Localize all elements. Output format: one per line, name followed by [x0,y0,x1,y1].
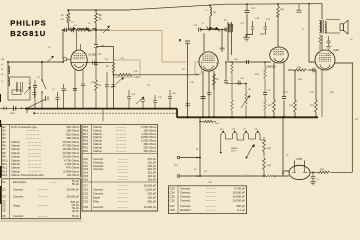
capacitor C14b [141,100,145,109]
svg-text:410 pF: 410 pF [147,167,156,171]
wire heater drop [199,117,201,176]
svg-text:C1: C1 [2,180,6,184]
resistor R9 cathode [213,74,216,117]
tube V2 electrodes [203,55,215,63]
junction dots mains [263,172,284,177]
svg-text:Carbon: Carbon [93,125,102,129]
mains plug pins [4,106,7,110]
svg-text:C23: C23 [83,205,89,209]
capacitor C16 [168,90,172,109]
aerial labels [1,64,4,76]
svg-text:10,000 pF: 10,000 pF [144,205,157,209]
junction dots IF2 [201,3,310,30]
chassis bus left (thick) [26,108,177,110]
resistor R19 [294,100,297,112]
capacitor row C3b [56,92,60,109]
svg-text:R13: R13 [2,169,8,173]
wire coupling row [288,69,313,71]
middle table rows R15-R22 [83,125,157,153]
capacitor C18b HT [297,4,302,12]
selector tap dots [220,131,259,154]
svg-text:— — — —: — — — — [26,137,40,140]
capacitor C12a [112,85,116,87]
svg-text:W.W. Cemented type: W.W. Cemented type [11,125,37,129]
svg-text:22k: 22k [147,85,150,87]
mains terminal upper [177,156,180,159]
resistor R6 horizontal osc [114,74,132,77]
svg-text:R10: R10 [2,158,8,162]
volume potentiometer R13a [245,84,248,118]
tube V1 grid pad [63,58,66,61]
wire UF89 grid feed [132,74,200,76]
svg-text:10,000 pF: 10,000 pF [233,195,246,199]
output transformer T1 primary [320,21,321,33]
dropper resistor R23 [263,158,266,176]
svg-text:— — — —: — — — — [28,159,42,162]
svg-text:— — — —: — — — — [28,156,42,159]
svg-text:C2: C2 [2,188,6,192]
svg-text:Carbon: Carbon [11,147,20,151]
capacitor C2b box side [33,88,37,98]
svg-text:C11: C11 [83,160,88,164]
aerial coil L2 [8,78,10,86]
svg-text:UABC80: UABC80 [266,66,276,69]
capacitor C17a [236,81,242,86]
HT dropper capacitor C21 [245,11,250,13]
svg-text:Carbon: Carbon [11,144,20,148]
tube V4 electrodes [319,54,331,62]
wire top bus HT [130,4,322,10]
svg-text:PHILIPS: PHILIPS [10,18,47,27]
oscillator can outline [114,60,141,77]
svg-text:110 pF: 110 pF [148,177,157,181]
wire AF grid resistor [294,70,296,117]
svg-text:820 Ohms: 820 Ohms [66,132,79,136]
svg-text:30 pF: 30 pF [72,209,79,213]
svg-text:6,800 Ohms: 6,800 Ohms [141,135,157,139]
svg-text:Electrolytic: Electrolytic [13,180,27,184]
resistor R5 (screen feed) [95,13,98,23]
IF2 transformer windings [228,24,229,32]
resistor R11 AVC [264,62,267,92]
wire oscillator row [63,29,110,31]
wire osc to triode grid [62,30,64,59]
resistor R16 anode load [277,7,280,18]
wire HT dropper [246,4,248,37]
trimmer C14 [136,97,144,104]
svg-text:— — —: — — — [38,189,48,192]
capacitor C6a osc [65,28,67,32]
mains switch S2 [14,106,16,111]
tube V5 electrodes [295,166,305,172]
svg-text:R15: R15 [83,125,89,129]
wire IF1 choke [209,5,211,26]
wire HT right riser [351,63,353,172]
svg-text:10,000 Ohms: 10,000 Ohms [62,155,79,159]
svg-text:Carbon: Carbon [11,166,20,170]
svg-text:600 Ohms: 600 Ohms [66,125,79,129]
svg-text:C20: C20 [83,192,89,196]
tube V3 UABC80 envelope [270,47,289,63]
chassis bus step (thick) [176,109,178,118]
svg-text:R14: R14 [2,173,8,177]
trimmer C7 arrow [103,26,110,33]
trimmer C4 top [47,56,54,62]
ground reservoir [310,182,316,185]
wire to output transformer [321,4,323,20]
svg-text:UF89: UF89 [219,48,226,51]
svg-text:R2: R2 [2,129,6,133]
resistor R12 [264,95,267,118]
wire screen drop [96,30,114,109]
middle table rows C17-C21 [83,184,156,210]
switch contacts mains [46,96,49,101]
resistor R4 cathode [95,62,98,109]
svg-text:Moulded: Moulded [180,208,191,212]
tube V5 UY85 envelope [289,165,310,179]
osc core arrow [116,78,124,85]
tube V1 UCH81 envelope [71,50,87,70]
resistor R2 (top left) [67,13,70,23]
svg-text:C26: C26 [170,199,176,203]
svg-text:— — — —: — — — — [28,170,42,173]
svg-text:250 Ohms: 250 Ohms [66,136,79,140]
svg-text:1M Ohms: 1M Ohms [67,173,80,177]
wire IF1 row [200,29,226,31]
svg-text:470 pF: 470 pF [147,157,156,161]
bottom edge shading [0,220,82,223]
capacitor C19 cathode [201,97,206,99]
svg-text:— — —: — — — [206,200,216,203]
oscillator coil L6 core arrows [86,27,91,32]
wire UL84 right to HT riser [335,62,353,64]
svg-text:Carbon: Carbon [11,140,20,144]
resistor R21 barretter [200,120,216,122]
svg-text:— — —: — — — [38,215,48,218]
wire UABC80 aux [283,63,285,118]
stray mark [179,39,181,41]
svg-text:47,000 Ohms: 47,000 Ohms [62,144,79,148]
svg-text:Ceramic: Ceramic [180,195,191,199]
wire aerial horizontal [8,61,63,63]
svg-text:— — — —: — — — — [26,133,40,136]
svg-text:15,000 Ohms: 15,000 Ohms [62,140,79,144]
tube V3 electrodes [274,50,285,55]
capacitor C25 [282,97,286,99]
extra junction dots [95,29,314,84]
svg-text:1,000 pF: 1,000 pF [145,188,156,192]
svg-text:C25: C25 [170,195,176,199]
svg-text:Gang: Gang [13,204,20,208]
svg-text:15,000 Ohms: 15,000 Ohms [62,147,79,151]
svg-text:— — —: — — — [118,185,128,188]
capacitor C23 det2 [260,22,267,34]
middle table border (R14-R22, C10-C21) [82,124,158,211]
svg-text:— — —: — — — [38,196,48,199]
svg-text:390 Ohms: 390 Ohms [143,142,156,146]
capacitor C2 aerial [33,86,37,88]
svg-text:C16: C16 [83,177,89,181]
junction dots lamps [196,157,201,177]
wire screen feed UL84 [309,4,315,62]
svg-text:Carbon: Carbon [11,155,20,159]
capacitor C5 (screen decouple) [94,45,98,48]
resistor table border (R1-R13) [2,124,81,177]
svg-text:R18: R18 [83,135,89,139]
svg-text:Ceramic: Ceramic [13,214,24,218]
svg-text:1M: 1M [248,89,251,91]
table link stub [102,109,104,121]
wire IF2 verticals [228,22,232,62]
svg-text:Ceramic: Ceramic [93,164,104,168]
resistor R10 det load [231,62,234,84]
resistor R25 tone [319,34,322,50]
svg-text:— — —: — — — [206,192,216,195]
svg-text:Carbon: Carbon [11,158,20,162]
voltage selector contacts [221,132,264,152]
svg-text:— — —: — — — [118,206,128,209]
svg-text:Ceramic: Ceramic [93,188,104,192]
svg-text:50 pF: 50 pF [72,214,79,218]
svg-text:Ceramic: Ceramic [180,204,191,208]
svg-text:C13: C13 [83,167,89,171]
svg-text:Carbon: Carbon [11,162,20,166]
resistor R20 cathode UL84 [315,100,318,112]
HT choke L7 [210,7,211,16]
svg-text:C9: C9 [2,214,6,218]
svg-text:10,000 pF: 10,000 pF [144,184,157,188]
right table border (C23-C28) [169,186,247,214]
chassis shield outline (faint) [107,31,186,63]
svg-text:Ceramic: Ceramic [13,188,24,192]
svg-text:C21: C21 [83,196,89,200]
svg-text:C14: C14 [83,171,89,175]
ground tone [326,47,331,50]
loudspeaker LS [340,24,344,31]
capacitor C14a [93,61,114,65]
svg-text:220 V: 220 V [231,151,237,153]
svg-text:— — —: — — — [118,178,128,181]
right table rows C23-C28 [170,187,246,213]
svg-text:— —: — — [50,181,57,184]
coupling resistor R18 [294,69,307,72]
svg-text:C19: C19 [83,188,89,192]
svg-text:Carbon: Carbon [93,135,102,139]
svg-text:Carbon: Carbon [93,139,102,143]
svg-text:Carbon Potentiometer with: Carbon Potentiometer with [11,173,44,177]
left edge scan marks [0,94,1,204]
tube V4 UL84 envelope [315,50,335,70]
svg-text:— — —: — — — [38,205,48,208]
svg-text:C17: C17 [83,184,89,188]
svg-text:UCH81: UCH81 [89,55,97,57]
tube V1 top pins [77,30,81,50]
resistor table rows R1-R13a [2,125,79,177]
svg-text:2,2M Ohms: 2,2M Ohms [65,162,80,166]
svg-text:220 Ohms: 220 Ohms [143,145,156,149]
svg-text:Carbon: Carbon [93,142,102,146]
capacitor table border (C1-C9) [2,179,81,219]
svg-text:10,000 pF: 10,000 pF [233,199,246,203]
svg-text:— — — —: — — — — [28,141,42,144]
wire UL84 cathode [315,70,317,117]
capacitor C13 [127,90,131,109]
svg-text:— — —: — — — [118,193,128,196]
detector capacitor C24 [247,60,249,64]
svg-text:120 pF: 120 pF [147,174,156,178]
wire mains live [180,157,200,159]
svg-text:Carbon: Carbon [93,149,102,153]
svg-text:140 pF: 140 pF [147,164,156,168]
svg-text:R5: R5 [2,140,6,144]
output transformer T1 core [322,20,323,34]
mains terminal lower [177,175,180,178]
oscillator coil L5 winding [77,28,85,30]
selector arm [247,145,255,158]
svg-text:— — —: — — — [206,205,216,208]
wire transformer to anode [321,35,323,50]
mains voltage note [174,162,197,171]
svg-text:Ceramic: Ceramic [180,199,191,203]
svg-text:1,000 Ohms: 1,000 Ohms [141,139,157,143]
svg-text:R22: R22 [83,149,89,153]
svg-text:— — — —: — — — — [28,145,42,148]
svg-text:— — — —: — — — — [28,163,42,166]
svg-text:Carbon: Carbon [11,151,20,155]
selector tap labels [220,129,259,131]
mains label block [231,147,238,153]
svg-text:R20: R20 [83,142,89,146]
resistor R6a vertical [112,63,115,73]
svg-text:C4: C4 [2,195,6,199]
svg-text:R21: R21 [83,145,89,149]
svg-text:110 pF: 110 pF [148,160,157,164]
svg-text:MAINS: MAINS [231,147,238,150]
svg-text:UY85: UY85 [296,158,303,161]
svg-text:0.1 µF: 0.1 µF [237,208,245,212]
component value labels [1,8,325,184]
capacitor table rows C1-C9 [2,179,79,218]
svg-text:10,000 pF: 10,000 pF [233,191,246,195]
wire UABC80 anode riser [277,4,279,47]
screen can outline [195,62,202,74]
resistor R9b det [231,84,234,118]
svg-text:R7: R7 [2,147,6,151]
wire det junctions [225,62,227,74]
wire screen vertical [95,10,97,30]
capacitor C20 [207,93,211,118]
capacitor C8 [81,84,85,109]
dropper resistor R22 [263,137,266,157]
capacitor C6 (osc grid) [93,28,97,30]
svg-text:Diode: Diode [93,196,101,200]
surge resistor R24b [266,175,275,177]
wire UF89 cathode [202,71,204,117]
IF2 left capacitor C15 [199,28,201,32]
oscillator coil L4 core arrows [69,28,74,33]
wire aerial coil vertical [7,62,9,77]
svg-text:R4: R4 [2,136,6,140]
svg-text:Ceramic: Ceramic [93,192,104,196]
svg-text:R17: R17 [83,132,89,136]
svg-text:Carbon: Carbon [93,132,102,136]
svg-text:— — — —: — — — — [26,130,40,133]
chassis bus right (thick) [177,116,318,118]
svg-text:47K Ohms: 47K Ohms [66,166,80,170]
svg-text:— — —: — — — [118,197,128,200]
svg-text:— — —: — — — [116,150,126,153]
wire bottom mains [180,175,283,177]
svg-text:UL84: UL84 [333,49,339,52]
svg-text:B2G81U: B2G81U [10,29,46,38]
svg-text:C10: C10 [83,157,89,161]
svg-text:C22: C22 [83,200,89,204]
trimmer arrow aerial [24,87,31,94]
tube V2 UF89 envelope [199,52,218,71]
svg-text:Ceramic: Ceramic [93,205,104,209]
coupling capacitor C26 [313,68,317,72]
junction dots osc row [62,9,97,31]
capacitor C16a [224,74,228,84]
wire rectifier output [310,171,352,173]
dashed dial cord [34,112,176,114]
switch arm mains [26,99,46,109]
svg-text:— — —: — — — [206,196,216,199]
capacitor C9 [105,72,109,109]
middle table rows C10-C16 [83,157,156,181]
wave-change switch S1 [41,62,43,109]
svg-text:100 pF: 100 pF [147,192,156,196]
wire AF row [226,83,246,85]
capacitor C3 tube grid [73,89,77,91]
svg-text:Ceramic: Ceramic [180,187,191,191]
output transformer T1 secondary [325,22,326,33]
capacitor C22 det [251,24,253,31]
svg-text:47k: 47k [99,19,102,21]
svg-text:0.25M Ohms: 0.25M Ohms [63,169,79,173]
svg-text:— — —: — — — [206,209,216,212]
svg-text:R9: R9 [2,155,6,159]
svg-text:— — — —: — — — — [28,167,42,170]
capacitor C17b [263,93,267,95]
svg-text:C28: C28 [170,208,176,212]
wire rectifier riser [283,117,289,176]
svg-text:50 µF: 50 µF [72,182,79,186]
svg-text:— — —: — — — [118,189,128,192]
junction dots bus left [7,61,171,109]
svg-text:R1: R1 [2,125,6,129]
wire detector row [228,61,271,63]
capacitor C27 tone [327,36,331,46]
svg-text:Carbon: Carbon [93,128,102,132]
wire IF2 ground elbow [246,31,253,38]
svg-text:R11: R11 [2,162,7,166]
svg-text:110 pF: 110 pF [148,171,157,175]
svg-text:R16: R16 [83,128,89,132]
wire switch link [26,109,28,114]
svg-text:20,000 pF: 20,000 pF [67,188,80,192]
resistor R17 grid leak [273,100,276,112]
svg-text:150 Ohms: 150 Ohms [66,129,79,133]
misc value labels [2,19,359,176]
junction dots bus right [187,116,317,118]
tube V1 bottom pins [75,70,83,109]
capacitor C18d near bus [186,104,191,106]
svg-text:Filter: Filter [93,200,99,204]
capacitor C18c AVC top [185,41,190,43]
capacitor C5b [94,63,98,65]
svg-text:Ceramic: Ceramic [93,160,104,164]
